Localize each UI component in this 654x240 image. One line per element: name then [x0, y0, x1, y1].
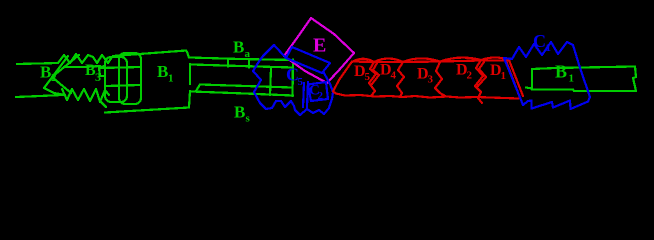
C collar tilted band: [274, 45, 330, 73]
D3 segment arch: [403, 58, 440, 62]
D band top edge: [352, 61, 509, 63]
D5|D4 divider: [369, 62, 376, 96]
body B1 outline: [105, 51, 190, 113]
svg-text:1: 1: [501, 70, 507, 82]
baseplate left cap: [248, 61, 250, 68]
label C1: [533, 31, 551, 54]
collar arrow edge: [52, 55, 79, 93]
svg-text:B: B: [233, 38, 244, 57]
box cluster horizontal 1: [101, 67, 140, 68]
collar diagonal 1: [44, 56, 68, 88]
C ladder lines: [303, 83, 304, 107]
svg-text:C: C: [533, 31, 546, 51]
D4|D3 divider: [397, 62, 404, 97]
box cluster rounded box 2: [119, 53, 141, 104]
svg-text:E: E: [313, 35, 326, 57]
D4 segment arch: [374, 59, 403, 63]
C1 band right edge: [573, 45, 590, 97]
svg-text:3: 3: [95, 70, 101, 84]
svg-text:1: 1: [569, 73, 575, 85]
D3|D2 divider: [435, 62, 446, 97]
svg-text:a: a: [245, 48, 251, 60]
tube bottom upper line: [196, 85, 292, 92]
svg-text:3: 3: [428, 74, 434, 86]
needle bottom line: [16, 95, 62, 97]
svg-text:5: 5: [298, 76, 304, 88]
D5|D4 divider second stroke: [372, 63, 379, 84]
C cluster outline: [253, 45, 333, 115]
svg-text:B: B: [40, 63, 51, 82]
B1 right rectangle: [532, 67, 636, 92]
svg-text:2: 2: [318, 90, 324, 102]
baseplate I-beam vertical: [270, 68, 271, 95]
collar bottom zigzag teeth: [62, 89, 109, 102]
C2 box: [308, 82, 328, 101]
svg-text:s: s: [246, 113, 251, 125]
B1 right rect bottom overshoot: [526, 88, 532, 89]
svg-text:1: 1: [546, 42, 552, 54]
label D5: [354, 63, 371, 83]
C1 band bottom sawtooth: [521, 97, 590, 109]
collar inner line: [64, 66, 100, 67]
collar lower edge: [44, 88, 65, 95]
label Ba top tube: [233, 38, 251, 61]
D1 segment arch: [481, 58, 509, 61]
label B2 left: [40, 63, 57, 85]
svg-text:1: 1: [168, 73, 174, 85]
svg-text:B: B: [555, 62, 567, 82]
baseplate right cap: [291, 60, 294, 97]
svg-text:4: 4: [391, 70, 397, 82]
label C2: [309, 83, 324, 103]
label D3: [417, 66, 434, 86]
box cluster rounded box 1: [105, 57, 127, 102]
label D4: [380, 62, 397, 82]
label B1 body: [157, 62, 174, 85]
needle top line: [17, 63, 58, 64]
svg-text:B: B: [157, 62, 168, 81]
tube top upper line: [190, 58, 293, 61]
label D2: [456, 62, 473, 82]
svg-text:2: 2: [467, 70, 473, 82]
C1 band bottom-left diagonal: [504, 58, 521, 100]
svg-text:2: 2: [51, 72, 57, 84]
svg-text:B: B: [234, 103, 245, 122]
tube junction tick: [227, 59, 229, 67]
label C5: [286, 65, 304, 89]
svg-text:5: 5: [365, 71, 371, 83]
D5 segment arch: [352, 59, 374, 62]
D band right edge double diagonal: [505, 58, 523, 98]
box cluster horizontal 2: [106, 85, 140, 86]
D2|D1 divider: [475, 60, 483, 103]
E square rotated: [284, 18, 354, 83]
C1 band top zigzag: [504, 42, 573, 59]
D band bottom edge: [336, 94, 518, 99]
label B3 mid: [85, 62, 101, 84]
collar top zigzag teeth: [58, 54, 112, 63]
D2|D1 divider second stroke: [478, 62, 486, 86]
label D1: [490, 62, 506, 82]
tube top lower line: [192, 65, 293, 68]
tube bottom lower line: [192, 92, 293, 96]
box cluster left tab: [99, 66, 106, 107]
D2 segment arch: [440, 58, 481, 62]
D band left edge: [333, 62, 352, 94]
label B1 right: [555, 62, 574, 85]
label Bs bottom tube: [234, 103, 251, 125]
